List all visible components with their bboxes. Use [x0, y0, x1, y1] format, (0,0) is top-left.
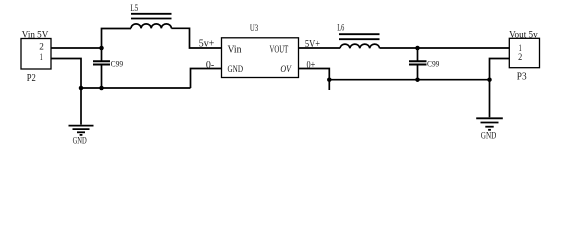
- label GND (right): [481, 131, 497, 141]
- junction node C99a / left rail: [99, 86, 104, 91]
- pin number 2 of P3: [518, 52, 522, 63]
- capacitor C99 (left) plates: [93, 61, 110, 64]
- svg-text:Vout 5v: Vout 5v: [509, 30, 538, 40]
- wire P2 pin1 down to ground rail: [51, 59, 81, 89]
- svg-text:L5: L5: [130, 3, 138, 13]
- svg-text:VOUT: VOUT: [270, 45, 289, 56]
- ground symbol (left): [69, 126, 94, 135]
- svg-text:OV: OV: [280, 64, 292, 74]
- svg-text:P3: P3: [517, 71, 527, 82]
- wire P3 pin2 down to right ground: [490, 59, 510, 118]
- wire P2 pin2 to node A: [51, 47, 102, 49]
- value label C99 (left): [111, 59, 124, 69]
- ground symbol (right): [476, 118, 503, 130]
- svg-text:5v+: 5v+: [199, 39, 215, 50]
- inductor L6 core bars: [339, 34, 380, 39]
- net label 5v+: [199, 39, 215, 50]
- svg-text:Vin 5V: Vin 5V: [22, 31, 49, 41]
- svg-text:Vin: Vin: [228, 45, 242, 56]
- wire U3 0V pin to right rail with stub: [299, 69, 330, 91]
- svg-text:2: 2: [518, 52, 522, 63]
- pin number 1 of P2: [40, 52, 43, 63]
- inductor L6 label: [337, 22, 344, 32]
- label GND (left): [73, 135, 87, 145]
- junction node P2 pin1 / left rail: [79, 86, 84, 91]
- value label C99 (right): [427, 59, 439, 69]
- wire C99a bottom segment: [101, 65, 103, 89]
- wire U3 VOUT to L6: [299, 47, 341, 49]
- svg-text:U3: U3: [250, 24, 259, 34]
- svg-text:L6: L6: [337, 22, 344, 32]
- svg-text:0-: 0-: [206, 60, 215, 71]
- svg-text:1: 1: [40, 52, 43, 63]
- inductor L5 label: [130, 3, 138, 13]
- wire L6 to P3 pin1: [380, 47, 510, 49]
- net label Vout 5v: [509, 30, 538, 40]
- junction node C99b / top wire: [415, 46, 420, 51]
- inductor L5 coil: [131, 24, 171, 28]
- junction node 0V / right rail: [327, 77, 332, 82]
- svg-text:C99: C99: [427, 59, 439, 69]
- svg-text:C99: C99: [111, 59, 124, 69]
- svg-text:GND: GND: [228, 64, 244, 74]
- pin name 0V of U3: [280, 64, 292, 74]
- svg-text:2: 2: [39, 42, 44, 53]
- junction node P2 pin2 / C99a: [99, 46, 104, 51]
- wire C99b bottom segment: [417, 65, 419, 80]
- wire left ground rail: [81, 87, 191, 89]
- pin name GND of U3: [228, 64, 244, 74]
- wire C99b top segment: [417, 48, 419, 61]
- pin name Vin of U3: [228, 45, 242, 56]
- connector P2 box: [21, 39, 51, 70]
- refdes U3: [250, 24, 259, 34]
- wire left ground stem: [80, 88, 82, 125]
- junction node C99b / right rail: [415, 77, 420, 82]
- wire C99a top segment and top rail to L5: [102, 29, 132, 62]
- svg-text:P2: P2: [27, 73, 36, 84]
- inductor L6 coil: [340, 44, 380, 48]
- refdes P3: [517, 71, 527, 82]
- refdes P2: [27, 73, 36, 84]
- net label 5V+ (right): [305, 39, 320, 50]
- inductor L5 core bars: [131, 14, 172, 19]
- net label 0-: [206, 60, 215, 71]
- capacitor C99 (right) plates: [409, 61, 427, 64]
- net label 0+ (right): [307, 60, 316, 71]
- wire L5 to U3 Vin (5v+ net): [171, 28, 221, 48]
- connector P3 box: [509, 38, 539, 67]
- svg-text:GND: GND: [73, 135, 87, 145]
- junction node right rail / P3 ground: [487, 77, 492, 82]
- net label Vin 5V: [22, 31, 49, 41]
- pin number 2 of P2: [39, 42, 44, 53]
- svg-text:GND: GND: [481, 131, 497, 141]
- wire right ground rail: [329, 79, 489, 81]
- op IC U3 box: [222, 38, 299, 78]
- pin number 1 of P3: [519, 43, 522, 54]
- pin name VOUT of U3: [270, 45, 289, 56]
- wire rail up to U3 GND pin: [191, 69, 222, 89]
